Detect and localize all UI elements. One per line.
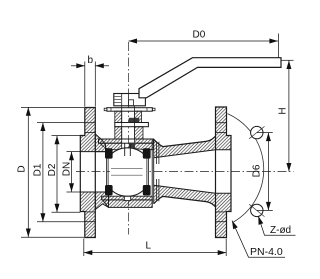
left flange outline bbox=[80, 108, 95, 238]
right cone bore lines bbox=[154, 150, 231, 193]
seat bottom-right bbox=[143, 185, 151, 195]
dimension D1 bbox=[37, 123, 85, 222]
left hub top bbox=[95, 134, 105, 152]
left hub bottom bbox=[95, 192, 108, 210]
body upper wall band bbox=[100, 143, 154, 150]
bolt hole radial tick lower bbox=[249, 204, 264, 216]
dimension D bbox=[21, 107, 84, 237]
stem key detail bbox=[129, 118, 140, 124]
ball port lines bbox=[111, 169, 143, 176]
svg-text:D6: D6 bbox=[252, 164, 263, 177]
stem bottom tang bbox=[129, 143, 135, 148]
svg-text:DN: DN bbox=[62, 162, 73, 176]
left flange bolt hole lines bbox=[85, 123, 96, 222]
svg-text:D2: D2 bbox=[47, 163, 58, 176]
end cap joint bbox=[152, 140, 154, 204]
svg-text:H: H bbox=[278, 107, 289, 114]
body bottom plate bbox=[103, 200, 153, 208]
dimension b bbox=[71, 62, 109, 107]
right flange plate hatch bbox=[216, 107, 232, 238]
label PN-4.0 with leader bbox=[232, 221, 285, 258]
svg-text:D1: D1 bbox=[32, 163, 43, 176]
dimension D6 bbox=[257, 133, 273, 211]
label Z-od with leader bbox=[258, 216, 295, 235]
bonnet neck left bbox=[115, 127, 122, 139]
right flange bolt hole lines bbox=[216, 123, 227, 222]
left flange plate hatch bbox=[80, 108, 95, 238]
dimension H bbox=[282, 60, 294, 171]
ball bbox=[103, 148, 151, 196]
seat top-right bbox=[143, 148, 151, 158]
bolt hole radial tick upper bbox=[249, 126, 264, 138]
dimension D2 bbox=[52, 136, 81, 213]
body lower wall band bbox=[102, 196, 153, 200]
bonnet neck right bbox=[135, 127, 143, 139]
gland plate bbox=[104, 108, 155, 112]
vertical centerline bbox=[128, 42, 130, 235]
svg-text:Z-ød: Z-ød bbox=[270, 225, 291, 236]
ball stem slot bbox=[125, 144, 131, 157]
dimension D0 bbox=[129, 34, 279, 58]
right cone hatched top bbox=[154, 136, 216, 158]
seat retainer lines bbox=[157, 142, 159, 202]
horizontal centerline bbox=[76, 171, 294, 173]
seat top-left bbox=[105, 148, 113, 158]
left bore lines bbox=[80, 152, 109, 192]
bolt hole upper bbox=[251, 126, 263, 138]
packing right bbox=[135, 111, 142, 122]
bolt circle arc bbox=[228, 114, 264, 222]
svg-text:D: D bbox=[17, 165, 28, 172]
body top plate bbox=[99, 139, 154, 143]
dimension L bbox=[84, 239, 226, 257]
stem lines bbox=[122, 106, 135, 143]
packing left bbox=[115, 111, 122, 122]
svg-text:L: L bbox=[146, 241, 152, 252]
right cone outlines bbox=[154, 136, 216, 207]
bonnet plate bbox=[115, 123, 149, 127]
seat bore face lines bbox=[106, 158, 148, 185]
bolt hole lower bbox=[251, 204, 263, 216]
stem head block bbox=[114, 94, 146, 106]
right flange outline bbox=[216, 107, 232, 238]
seat bottom-left bbox=[105, 185, 113, 195]
svg-text:PN-4.0: PN-4.0 bbox=[250, 246, 283, 258]
handle lever bbox=[139, 58, 281, 98]
dimension DN bbox=[67, 152, 81, 192]
svg-text:D0: D0 bbox=[193, 30, 206, 41]
ball bottom notch bbox=[124, 196, 130, 200]
right cone hatched bottom bbox=[154, 185, 216, 207]
svg-text:b: b bbox=[88, 55, 94, 66]
